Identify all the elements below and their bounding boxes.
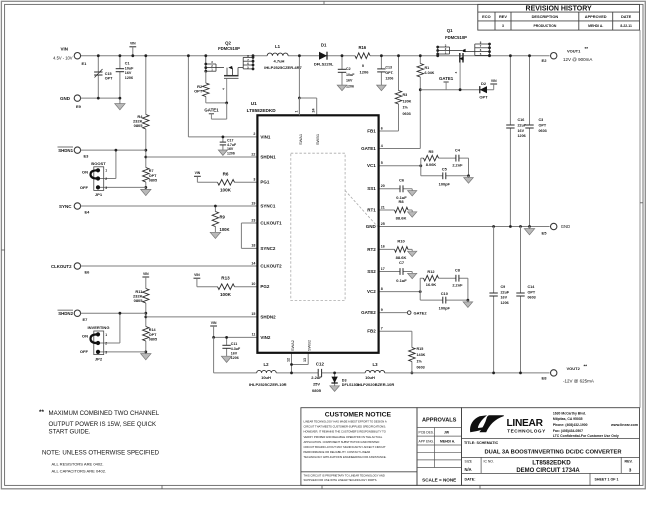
svg-text:SHDN2: SHDN2 [58, 311, 73, 316]
svg-text:R15: R15 [417, 347, 424, 351]
svg-text:1: 1 [105, 169, 107, 173]
svg-text:BOOST: BOOST [91, 161, 106, 166]
svg-text:D3: D3 [342, 378, 347, 382]
ground below C13 [377, 85, 387, 91]
junction C14 top [519, 225, 522, 228]
svg-text:RT1: RT1 [367, 207, 376, 212]
inductor L3 [365, 369, 385, 374]
svg-text:1206: 1206 [227, 151, 235, 155]
thermal pad dashed [291, 153, 345, 300]
svg-text:100K: 100K [220, 227, 230, 232]
svg-text:OPT: OPT [539, 124, 547, 128]
svg-text:10uF: 10uF [125, 66, 134, 70]
svg-text:ECO: ECO [482, 14, 490, 19]
junction GATE1 row [419, 88, 422, 91]
VIN power stub R11 [142, 276, 149, 278]
terminal E5 GND [551, 223, 557, 229]
svg-text:10uH: 10uH [365, 375, 375, 380]
svg-text:23: 23 [251, 218, 255, 222]
capacitor C1 [119, 56, 121, 98]
svg-text:GND: GND [60, 96, 71, 101]
svg-text:C12: C12 [316, 361, 325, 366]
svg-text:143K: 143K [417, 353, 426, 357]
svg-text:Fax: (408)434-0507: Fax: (408)434-0507 [553, 429, 583, 433]
inductor L1 [267, 52, 288, 57]
svg-text:FDMC510P: FDMC510P [218, 46, 240, 51]
svg-text:VIN2: VIN2 [260, 335, 271, 340]
ground below C2 [337, 85, 347, 91]
svg-text:DUAL 3A BOOST/INVERTING DC/DC: DUAL 3A BOOST/INVERTING DC/DC CONVERTER [484, 450, 622, 456]
svg-text:CUSTOMER NOTICE: CUSTOMER NOTICE [325, 412, 392, 419]
wire RT1 row [379, 209, 413, 211]
svg-text:SYNC: SYNC [59, 204, 72, 209]
svg-text:7: 7 [381, 327, 383, 331]
svg-text:APPLICATION. COMPONENT SUBSTI: APPLICATION. COMPONENT SUBSTITUTION AND … [304, 440, 380, 444]
wire SYNC row [81, 205, 258, 207]
svg-text:10: 10 [251, 282, 255, 286]
wire JP1 pin3 link [100, 186, 146, 188]
svg-text:14: 14 [251, 261, 255, 265]
wire GATE1 row right [420, 89, 493, 91]
svg-text:16V: 16V [518, 129, 525, 133]
svg-text:Milpitas, CA 95035: Milpitas, CA 95035 [553, 417, 583, 421]
svg-text:RT2: RT2 [367, 247, 376, 252]
VIN power stub VIN2 [210, 325, 217, 327]
svg-text:VIN: VIN [195, 171, 201, 175]
svg-text:**: ** [39, 409, 44, 416]
junction C9 top [492, 225, 495, 228]
capacitor C2 [341, 56, 343, 85]
svg-text:ON: ON [82, 334, 88, 339]
svg-text:HOWEVER, IT REMAINS THE CUSTOM: HOWEVER, IT REMAINS THE CUSTOMER'S RESPO… [304, 430, 386, 434]
svg-text:**: ** [585, 46, 589, 51]
svg-text:Phone: (408)432-1900: Phone: (408)432-1900 [553, 423, 588, 427]
svg-text:R12: R12 [427, 269, 435, 274]
resistor R6 [218, 179, 235, 187]
capacitor C6 [400, 185, 403, 192]
svg-text:GATE2: GATE2 [414, 310, 428, 315]
svg-text:L1: L1 [275, 44, 281, 49]
svg-text:VERIFY PROPER AND RELIABLE OPE: VERIFY PROPER AND RELIABLE OPERATION IN … [304, 435, 383, 439]
capacitor C11 [226, 337, 228, 356]
svg-text:16V: 16V [231, 351, 238, 355]
resistor R4 [142, 115, 150, 130]
svg-text:www.linear.com: www.linear.com [610, 423, 638, 427]
resistor R7 [142, 168, 150, 183]
svg-text:R8: R8 [398, 199, 404, 204]
svg-text:D2: D2 [481, 81, 487, 86]
svg-text:PG1: PG1 [260, 180, 270, 185]
svg-text:16V: 16V [501, 296, 508, 300]
svg-text:FB2: FB2 [367, 329, 376, 334]
resistor R13 [218, 283, 235, 291]
svg-text:C1: C1 [125, 61, 130, 65]
svg-text:VIN1: VIN1 [260, 134, 271, 139]
ground below C11 [221, 356, 231, 362]
wire VIN rail [81, 55, 550, 57]
resistor R11 [142, 289, 150, 304]
svg-text:0603: 0603 [528, 296, 536, 300]
svg-text:VIN: VIN [130, 42, 136, 46]
svg-text:APPROVED: APPROVED [585, 14, 607, 19]
ground C6 [411, 189, 413, 191]
svg-text:22uF: 22uF [501, 290, 510, 294]
svg-text:**: ** [584, 364, 588, 369]
svg-text:VOUT2: VOUT2 [567, 366, 581, 371]
svg-text:130K: 130K [403, 99, 412, 103]
junction R15 bottom [411, 372, 414, 375]
svg-text:CIRCUIT THAT MEETS CUSTOMER-SU: CIRCUIT THAT MEETS CUSTOMER-SUPPLIED SPE… [304, 425, 387, 429]
svg-text:DFLS220L: DFLS220L [314, 61, 334, 66]
svg-text:C13: C13 [385, 65, 392, 69]
resistor R14 [142, 327, 150, 342]
transistor Q2 FDMC510P [206, 56, 253, 79]
resistor R16 [355, 52, 370, 60]
svg-text:OFF: OFF [80, 185, 89, 190]
svg-text:VIN: VIN [491, 79, 497, 83]
wire PG2 row [197, 286, 258, 288]
svg-text:0805: 0805 [134, 123, 144, 128]
wire R2 to gate [206, 102, 227, 104]
pin 4 gate Q1 [459, 63, 461, 90]
svg-text:TECHNOLOGY: TECHNOLOGY [507, 428, 546, 433]
svg-text:REV.: REV. [624, 459, 632, 463]
wire CLKOUT1 SYNC2 loop [241, 222, 257, 224]
svg-text:6.04K: 6.04K [425, 71, 435, 75]
svg-text:ON: ON [82, 170, 88, 175]
svg-text:TITLE: SCHEMATIC: TITLE: SCHEMATIC [464, 441, 498, 445]
svg-text:LT8582EDKD: LT8582EDKD [247, 108, 277, 113]
diode D3 [334, 373, 336, 386]
wire GATE2 row [379, 312, 407, 314]
wire GATE1 pin row [379, 148, 421, 150]
svg-text:6: 6 [381, 126, 383, 130]
ground below R9 [210, 232, 220, 238]
svg-text:1: 1 [294, 111, 298, 113]
svg-text:C11: C11 [231, 342, 237, 346]
wire SHDN1 pin row [146, 156, 258, 158]
wire CLKOUT2 row [81, 265, 258, 267]
node GATE1 tag left [226, 103, 228, 119]
svg-text:L3: L3 [372, 362, 378, 367]
svg-text:88.6K: 88.6K [396, 255, 407, 260]
svg-text:R16: R16 [358, 45, 366, 50]
svg-text:-12V @ 625mA: -12V @ 625mA [563, 379, 594, 384]
svg-text:PRODUCTION: PRODUCTION [534, 24, 557, 28]
node GATE2 open [407, 311, 411, 315]
svg-text:DEMO CIRCUIT 1734A: DEMO CIRCUIT 1734A [516, 468, 580, 474]
svg-text:17: 17 [381, 267, 385, 271]
ground R8 [411, 210, 413, 212]
svg-text:100pF: 100pF [439, 306, 451, 311]
VIN power stub PG2 [194, 277, 201, 279]
node SW2 [291, 353, 293, 365]
svg-text:Q1: Q1 [447, 28, 453, 33]
resistor R15 [411, 331, 413, 373]
svg-text:LINEAR TECHNOLOGY HAS MADE A B: LINEAR TECHNOLOGY HAS MADE A BEST EFFORT… [304, 420, 387, 424]
ground R10 [411, 249, 413, 251]
svg-text:16.9K: 16.9K [426, 282, 437, 287]
svg-text:100K: 100K [220, 188, 232, 193]
junction C15 top [97, 54, 100, 57]
svg-text:R7: R7 [149, 169, 154, 173]
node SW1 [298, 56, 300, 98]
svg-text:OPT.: OPT. [385, 71, 393, 75]
svg-text:CLKOUT2: CLKOUT2 [260, 263, 282, 268]
wire VC2 network frame [419, 278, 421, 300]
svg-text:15: 15 [251, 312, 255, 316]
svg-text:INVERTING: INVERTING [87, 325, 109, 330]
svg-text:0603: 0603 [539, 129, 547, 133]
capacitor C14 [520, 227, 522, 373]
terminal E3 SHDN1 [74, 147, 80, 153]
terminal E1 VIN [74, 53, 80, 59]
svg-text:SWA1: SWA1 [298, 134, 303, 145]
ground below D3 [330, 386, 340, 392]
customer notice box [301, 408, 417, 486]
svg-text:88.6K: 88.6K [396, 216, 407, 221]
svg-text:THIS CIRCUIT IS PROPRIETARY TO: THIS CIRCUIT IS PROPRIETARY TO LINEAR TE… [304, 474, 385, 478]
svg-text:8.06K: 8.06K [426, 162, 437, 167]
svg-text:CLKOUT2: CLKOUT2 [51, 264, 72, 269]
svg-text:OPT: OPT [149, 333, 157, 337]
capacitor C13 [380, 56, 382, 85]
capacitor C9 [493, 227, 495, 373]
wire VIN2 row [214, 336, 258, 338]
wire FB2 row [379, 330, 412, 332]
svg-text:VC2: VC2 [367, 289, 376, 294]
svg-text:22: 22 [251, 152, 255, 156]
svg-text:1%: 1% [417, 359, 423, 363]
svg-text:MAXIMUM COMBINED TWO CHANNEL: MAXIMUM COMBINED TWO CHANNEL [49, 410, 160, 417]
svg-text:E7: E7 [83, 317, 89, 322]
terminal E4 SYNC [74, 203, 80, 209]
svg-text:8-22-11: 8-22-11 [620, 24, 632, 28]
svg-text:8: 8 [381, 287, 383, 291]
svg-text:R1: R1 [425, 66, 430, 70]
svg-text:2: 2 [105, 177, 107, 181]
capacitor C4 [456, 155, 459, 162]
svg-text:GND: GND [561, 224, 570, 229]
wire VIN2 down to bottom rail [213, 337, 215, 373]
svg-text:2.2nF: 2.2nF [452, 283, 463, 288]
svg-text:TECHNOLOGY APPLICATIONS ENGINE: TECHNOLOGY APPLICATIONS ENGINEERING FOR … [304, 455, 387, 459]
svg-text:E1: E1 [82, 61, 88, 66]
op-amp U1 LT8582EDKD body [257, 115, 378, 352]
junction JP1 pin3 row [144, 186, 147, 189]
VIN power stub PG1 [194, 175, 201, 177]
svg-text:L2: L2 [263, 362, 269, 367]
wire PG1 row [197, 181, 257, 183]
svg-text:E9: E9 [76, 104, 82, 109]
svg-text:SWA2: SWA2 [290, 340, 295, 351]
svg-text:APPROVALS: APPROVALS [422, 417, 457, 423]
svg-text:3: 3 [253, 178, 255, 182]
wire SS2 row [379, 271, 413, 273]
svg-text:R9: R9 [220, 215, 226, 220]
svg-text:JW: JW [444, 431, 450, 435]
wire JP2 pin3 link [100, 351, 146, 353]
diode D1 [319, 52, 327, 60]
capacitor C16 [509, 56, 511, 227]
svg-text:SYNC2: SYNC2 [260, 246, 276, 251]
ground at GND row [529, 227, 531, 229]
terminal E6 CLKOUT2 [74, 263, 80, 269]
svg-text:1206: 1206 [518, 134, 526, 138]
svg-text:E4: E4 [85, 210, 91, 215]
junction SHDN2 pin row [144, 316, 147, 319]
svg-text:VIN: VIN [143, 272, 149, 276]
svg-text:FB1: FB1 [367, 128, 376, 133]
capacitor C3 [529, 56, 531, 227]
wire RT2 row [379, 248, 413, 250]
svg-text:SUPPLIED FOR USE WITH LINEAR T: SUPPLIED FOR USE WITH LINEAR TECHNOLOGY … [304, 478, 378, 482]
junction R4 bottom E3 row [144, 149, 147, 152]
svg-text:0.1uF: 0.1uF [396, 278, 407, 283]
ground C7 [411, 272, 413, 274]
svg-text:APP ENG.: APP ENG. [419, 439, 435, 443]
svg-text:25V: 25V [313, 382, 320, 387]
svg-text:C14: C14 [528, 285, 536, 289]
capacitor C5 [443, 172, 446, 179]
svg-text:SYNC1: SYNC1 [260, 203, 276, 208]
svg-text:2.2nF: 2.2nF [452, 163, 463, 168]
svg-text:C9: C9 [501, 285, 506, 289]
title block frame [462, 408, 640, 486]
approvals box [417, 408, 462, 486]
inductor L2 [257, 369, 277, 374]
svg-text:16: 16 [381, 245, 385, 249]
svg-text:4.7uH: 4.7uH [274, 59, 285, 64]
resistor R8 [395, 206, 409, 214]
svg-text:SIZE: SIZE [465, 460, 473, 464]
svg-text:0805: 0805 [149, 179, 157, 183]
svg-text:IHLP2525CZER-4R7: IHLP2525CZER-4R7 [264, 65, 302, 70]
svg-text:3: 3 [105, 186, 107, 190]
svg-text:2: 2 [105, 341, 107, 345]
svg-text:SS2: SS2 [367, 269, 376, 274]
resistor R12 [424, 274, 439, 282]
svg-text:C8: C8 [455, 268, 461, 273]
svg-text:REVISION HISTORY: REVISION HISTORY [526, 6, 592, 13]
terminal E2 VOUT1 [551, 53, 557, 59]
VIN power stub top [129, 46, 136, 48]
svg-text:DATE:: DATE: [465, 478, 476, 482]
svg-text:GATE1: GATE1 [204, 108, 219, 113]
svg-text:E8: E8 [542, 375, 548, 380]
svg-text:4.3uF: 4.3uF [231, 347, 241, 351]
wire R4 column [145, 56, 147, 190]
junction C9 bottom [492, 372, 495, 375]
svg-text:C2: C2 [346, 67, 351, 71]
ground VC1 network [468, 176, 470, 178]
capacitor C10 [443, 297, 446, 304]
capacitor C7 [400, 268, 403, 275]
node GATE1 tag right [444, 81, 449, 83]
wire E7 row [81, 312, 146, 314]
capacitor C15 [97, 56, 99, 98]
svg-text:100K: 100K [220, 292, 232, 297]
svg-text:2: 2 [253, 132, 255, 136]
svg-text:REV: REV [499, 14, 507, 19]
svg-text:9: 9 [381, 308, 383, 312]
svg-text:1206: 1206 [360, 70, 370, 75]
logo Linear Technology [470, 415, 504, 432]
capacitor C12 [318, 369, 321, 377]
junction VC2 right [467, 299, 470, 302]
svg-text:OPT: OPT [194, 89, 203, 94]
capacitor C8 [456, 275, 459, 282]
svg-text:PERFORMANCE OR RELIABILITY. C: PERFORMANCE OR RELIABILITY. CONTACT LINE… [304, 450, 371, 454]
svg-text:12: 12 [286, 358, 290, 362]
svg-text:0603: 0603 [403, 112, 411, 116]
wire SS1 row [379, 188, 413, 190]
wire VC2 row [379, 291, 421, 293]
svg-text:10uH: 10uH [261, 375, 271, 380]
junction C14 bottom [519, 372, 522, 375]
junction C16 bottom [509, 225, 512, 228]
wire E3 row [81, 149, 146, 151]
svg-text:OPT: OPT [528, 290, 536, 294]
svg-text:1206: 1206 [501, 301, 509, 305]
svg-text:VOUT1: VOUT1 [567, 48, 581, 53]
svg-text:LINEAR: LINEAR [507, 418, 544, 429]
svg-text:10uF: 10uF [346, 73, 355, 77]
resistor R10 [395, 246, 409, 254]
wire E9 gnd row [81, 97, 120, 99]
diode D2 [480, 86, 487, 93]
svg-text:1206: 1206 [125, 76, 133, 80]
svg-text:OPT: OPT [149, 174, 157, 178]
svg-text:16V: 16V [125, 71, 132, 75]
svg-text:GND: GND [366, 224, 377, 229]
svg-text:DESCRIPTION: DESCRIPTION [532, 14, 559, 19]
svg-text:1%: 1% [403, 106, 409, 110]
ground VC2 network [467, 300, 469, 302]
svg-text:12V @ 900mA: 12V @ 900mA [563, 57, 592, 62]
svg-text:C7: C7 [399, 260, 405, 265]
svg-text:N/A: N/A [465, 467, 472, 472]
svg-text:JP1: JP1 [95, 192, 103, 197]
wire bottom rail [214, 372, 550, 374]
svg-text:R10: R10 [397, 238, 405, 243]
junction C3 bottom [528, 225, 531, 228]
svg-text:VIN: VIN [194, 273, 200, 277]
svg-text:11: 11 [252, 333, 256, 337]
svg-text:R13: R13 [221, 276, 230, 281]
wire SHDN2 pin row [146, 316, 258, 318]
svg-text:3: 3 [105, 350, 107, 354]
svg-text:ALL RESISTORS ARE 0402.: ALL RESISTORS ARE 0402. [52, 462, 104, 467]
svg-text:PCB DES.: PCB DES. [419, 431, 434, 435]
svg-text:1206: 1206 [231, 356, 239, 360]
svg-text:0805: 0805 [134, 298, 144, 303]
svg-text:MEHDI A.: MEHDI A. [588, 24, 603, 28]
svg-text:16V: 16V [346, 79, 353, 83]
svg-text:C10: C10 [441, 291, 448, 296]
svg-text:C16: C16 [518, 118, 525, 122]
svg-text:GATE1: GATE1 [361, 146, 376, 151]
svg-text:SCALE = NONE: SCALE = NONE [422, 478, 456, 483]
svg-text:24: 24 [312, 109, 316, 113]
svg-text:DATE: DATE [621, 14, 632, 19]
svg-text:4: 4 [381, 144, 383, 148]
svg-text:R3: R3 [403, 93, 408, 97]
VIN power stub D2 [490, 83, 497, 85]
svg-text:C4: C4 [455, 148, 461, 153]
svg-text:OPT: OPT [479, 94, 488, 99]
svg-text:NOTE: UNLESS OTHERWISE SPECIFI: NOTE: UNLESS OTHERWISE SPECIFIED [42, 449, 160, 456]
